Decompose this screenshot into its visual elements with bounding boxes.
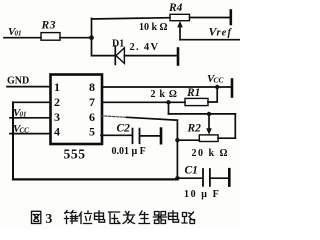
terminal Vref — [230, 11, 233, 25]
wire to diode cathode — [92, 55, 115, 57]
wire node down to diode row — [91, 38, 93, 56]
wire pin8 to Vcc rail — [102, 86, 231, 88]
terminal after C2 — [160, 129, 163, 144]
svg-text:5: 5 — [89, 125, 95, 139]
svg-text:10 μ F: 10 μ F — [184, 189, 220, 200]
wire R4 to Vref terminal — [190, 17, 231, 19]
terminal after C1 — [228, 169, 231, 185]
capacitor C1 plates — [203, 169, 210, 186]
wire bottom rail — [13, 178, 177, 180]
junction node R2 left — [175, 138, 179, 142]
svg-text:8: 8 — [89, 80, 95, 94]
caption char 位 — [79, 211, 92, 224]
svg-text:10 k Ω: 10 k Ω — [139, 22, 168, 33]
svg-text:20 k Ω: 20 k Ω — [192, 148, 230, 159]
svg-text:01: 01 — [20, 111, 27, 119]
junction node R2 wiper top — [207, 112, 211, 116]
junction node Vcc rail — [215, 85, 219, 89]
wire R2 top rail — [169, 113, 236, 115]
svg-text:3: 3 — [46, 211, 53, 226]
R2 wiper stem — [208, 114, 210, 129]
caption char 发 — [123, 212, 135, 224]
wire node up — [91, 18, 93, 37]
caption char 图 — [32, 211, 41, 223]
svg-text:555: 555 — [64, 147, 86, 162]
R2 wiper arrowhead — [206, 128, 212, 135]
wire pin2 — [13, 101, 50, 103]
svg-text:1: 1 — [54, 80, 60, 94]
svg-text:6: 6 — [89, 110, 95, 124]
R4 wiper arrowhead — [177, 21, 183, 28]
caption char 电 (2nd) — [169, 211, 179, 222]
caption: 图3 箝位电压发生器电路 (hand-drawn glyphs) — [32, 211, 195, 227]
caption char 箝 — [65, 211, 78, 224]
wire C1 to terminal — [211, 177, 228, 179]
caption char 3 — [46, 211, 53, 226]
wire wiper to right edge — [180, 39, 240, 41]
svg-text:C2: C2 — [117, 123, 131, 135]
resistor R1 — [185, 98, 208, 105]
terminal Vcc — [231, 80, 234, 97]
capacitor C2 plates — [133, 129, 140, 144]
svg-text:01: 01 — [15, 30, 22, 38]
svg-text:GND: GND — [7, 76, 29, 87]
svg-text:2: 2 — [54, 95, 60, 109]
svg-text:2 k Ω: 2 k Ω — [151, 89, 178, 100]
wire V01 input — [4, 37, 41, 39]
svg-text:R2: R2 — [187, 123, 202, 135]
wire pin7 drop to R2 rail — [168, 102, 170, 114]
svg-text:R1: R1 — [186, 87, 200, 99]
wire V01 to pin3 — [10, 117, 50, 119]
wire R1 right to Vcc rail — [208, 87, 217, 102]
caption char 压 — [109, 212, 121, 224]
caption char 电 — [95, 211, 105, 222]
wire pin6 down to C1 rail — [176, 120, 178, 178]
wire top rail — [92, 18, 171, 19]
wire R3 to node — [60, 37, 92, 39]
wire pin7 rail — [102, 101, 185, 103]
svg-text:D1: D1 — [112, 39, 124, 50]
terminal after D1 — [177, 49, 180, 65]
junction node after R3 — [89, 35, 94, 40]
junction node C1 rail — [175, 176, 179, 180]
svg-text:R3: R3 — [41, 20, 57, 32]
svg-text:CC: CC — [20, 127, 30, 135]
wire pin5 to C2 — [101, 134, 132, 136]
wire diode to terminal — [124, 55, 177, 57]
IC 555 box — [51, 75, 103, 145]
svg-text:R4: R4 — [168, 2, 183, 14]
wire left vertical — [12, 102, 14, 179]
caption char 路 — [182, 212, 195, 224]
junction node pin7 rail — [166, 100, 170, 104]
wire pin6 line — [127, 117, 177, 120]
caption char 生 — [139, 211, 150, 224]
wire GND to pin1 — [7, 86, 50, 88]
diode D1 cathode bar — [114, 46, 116, 64]
svg-text:C1: C1 — [185, 165, 198, 177]
wire R2 left — [177, 139, 199, 141]
potentiometer R2 — [199, 135, 218, 142]
diode D1 triangle — [116, 48, 124, 64]
wire R2 right — [218, 137, 235, 139]
wire C1 rail — [177, 177, 202, 179]
svg-text:0.01 μ F: 0.01 μ F — [112, 146, 146, 157]
svg-text:ref: ref — [217, 28, 233, 39]
wire C2 to terminal — [140, 135, 160, 137]
wire Vcc to pin4 — [10, 133, 50, 135]
svg-text:4: 4 — [54, 125, 60, 139]
svg-text:3: 3 — [54, 110, 60, 124]
R4 wiper stem — [179, 27, 181, 40]
caption char 器 — [154, 212, 167, 224]
wire R2 right side up — [234, 114, 236, 138]
svg-text:7: 7 — [89, 95, 95, 109]
resistor R3 — [41, 33, 60, 41]
potentiometer R4 — [170, 14, 190, 20]
svg-text:2. 4V: 2. 4V — [130, 42, 160, 53]
svg-text:CC: CC — [214, 76, 225, 85]
wire pin6 line (faint dotted start) — [101, 116, 128, 118]
